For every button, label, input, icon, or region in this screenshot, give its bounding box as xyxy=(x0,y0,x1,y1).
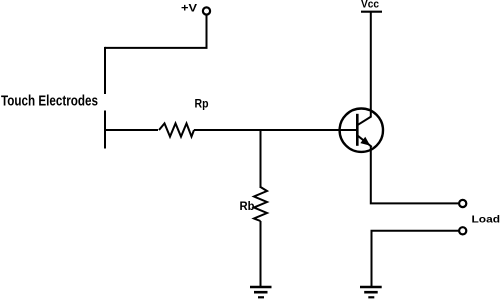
svg-text:+V: +V xyxy=(181,3,198,15)
wire Vcc to collector xyxy=(370,12,372,118)
resistor Rp xyxy=(159,123,194,136)
svg-text:Vcc: Vcc xyxy=(361,0,379,11)
ground GND1 xyxy=(250,287,272,297)
node load terminal 2 xyxy=(459,227,466,234)
ground GND2 xyxy=(360,287,382,297)
node +V terminal xyxy=(203,7,210,14)
svg-text:Rp: Rp xyxy=(195,99,209,111)
resistor Rb xyxy=(254,187,267,221)
power Vcc rail bar xyxy=(361,11,382,13)
wire Rb to ground xyxy=(260,221,262,287)
svg-text:Load: Load xyxy=(472,213,500,225)
touch electrode lower plate xyxy=(104,111,106,149)
wire junction to Rb xyxy=(260,129,262,188)
transistor Q1 xyxy=(340,109,383,152)
wire emitter to load terminal 1 xyxy=(371,146,459,203)
wire electrode to Rp xyxy=(104,129,158,131)
wire load terminal 2 to ground xyxy=(372,231,459,287)
svg-text:Rb: Rb xyxy=(240,201,255,213)
wire Rp to transistor base xyxy=(194,129,357,131)
wire +V terminal to electrode top xyxy=(105,15,207,48)
touch electrode upper plate xyxy=(104,47,106,94)
svg-text:Touch Electrodes: Touch Electrodes xyxy=(1,92,98,109)
node load terminal 1 xyxy=(459,200,466,207)
